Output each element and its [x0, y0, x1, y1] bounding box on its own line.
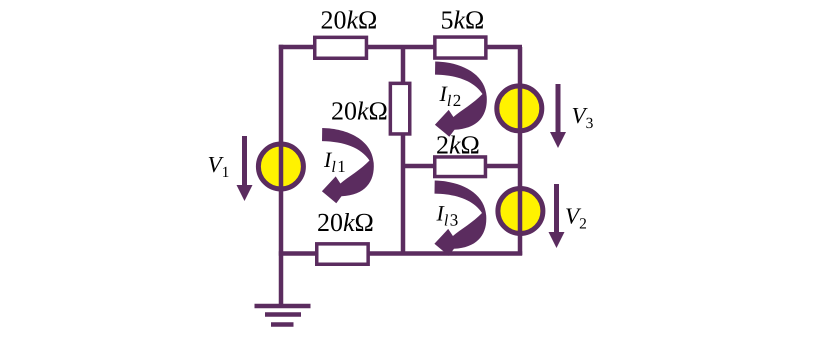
- svg-text:20kΩ: 20kΩ: [321, 6, 378, 35]
- wire middle horizontal: [403, 164, 520, 169]
- resistor R2 5k top-right: [435, 37, 486, 58]
- resistor R3 20k vertical: [390, 83, 409, 134]
- voltage source V3: [497, 86, 542, 131]
- wire bottom horizontal: [279, 251, 522, 256]
- svg-text:5kΩ: 5kΩ: [441, 6, 485, 35]
- ground: [255, 306, 311, 325]
- mesh arrow Il2: [435, 62, 487, 137]
- wire left vertical: [279, 45, 284, 304]
- wire right vertical: [518, 47, 523, 255]
- wire middle vertical: [401, 47, 406, 255]
- svg-text:20kΩ: 20kΩ: [317, 208, 374, 237]
- resistor R5 20k bottom: [317, 244, 368, 264]
- mesh arrow Il1: [322, 128, 374, 203]
- arrow V2 polarity: [549, 184, 565, 248]
- svg-text:V1: V1: [208, 152, 230, 181]
- arrow V3 polarity: [550, 84, 566, 148]
- svg-text:V3: V3: [572, 103, 594, 132]
- resistor R4 2k: [435, 157, 486, 177]
- svg-text:20kΩ: 20kΩ: [331, 97, 388, 126]
- svg-text:V2: V2: [565, 204, 587, 233]
- wire top horizontal: [279, 45, 522, 50]
- arrow V1 polarity: [237, 136, 253, 201]
- resistor R1 20k top-left: [315, 37, 367, 58]
- svg-text:Il1: Il1: [323, 147, 346, 176]
- voltage source V2: [498, 189, 543, 234]
- mesh arrow Il3: [434, 181, 486, 256]
- voltage source V1: [258, 144, 303, 189]
- svg-text:Il2: Il2: [439, 81, 462, 110]
- svg-text:2kΩ: 2kΩ: [436, 131, 480, 160]
- svg-text:Il3: Il3: [436, 201, 459, 230]
